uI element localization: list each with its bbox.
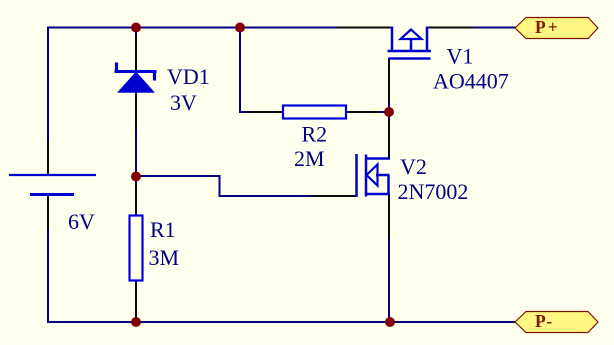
svg-text:6V: 6V xyxy=(68,209,95,234)
resistor R1 body xyxy=(130,216,143,281)
wire V1 gate to node xyxy=(388,102,390,112)
R2 pin left xyxy=(247,111,284,113)
V1 substrate arrow xyxy=(401,30,422,40)
wire V2 source to bottom rail xyxy=(388,238,390,322)
junction dot bottom R1 xyxy=(131,317,141,327)
R1 pin top xyxy=(135,182,137,216)
wire R2 left stub xyxy=(239,111,248,113)
battery GB plate negative xyxy=(30,193,74,196)
svg-text:P+: P+ xyxy=(535,17,560,37)
svg-text:R1: R1 xyxy=(150,217,176,242)
svg-text:V1: V1 xyxy=(447,44,474,69)
zener VD1 cathode bar xyxy=(115,70,157,73)
V1 pin gate xyxy=(388,58,390,103)
wire bottom rail xyxy=(47,321,515,323)
svg-text:V2: V2 xyxy=(400,154,427,179)
V2 pin gate xyxy=(311,195,356,197)
battery GB plate positive xyxy=(9,174,96,176)
V2 gate plate xyxy=(355,154,358,197)
port P+ xyxy=(515,18,598,39)
wire node to V2 drain xyxy=(388,112,390,120)
wire gate row upper xyxy=(136,175,221,177)
svg-text:P-: P- xyxy=(535,311,553,331)
V2 source stub xyxy=(365,193,390,196)
battery GB pin top xyxy=(47,140,49,174)
svg-text:3V: 3V xyxy=(170,90,197,115)
wire VD1 anode to node xyxy=(135,128,137,177)
battery GB pin bottom xyxy=(47,196,49,230)
V2 substrate arrow xyxy=(367,165,378,186)
op V1 mosfet symbol xyxy=(388,27,432,59)
svg-text:AO4407: AO4407 xyxy=(433,69,509,94)
zener VD1 anode triangle xyxy=(117,72,155,93)
V1 right stub xyxy=(426,27,429,52)
V2 drain stub xyxy=(365,157,390,160)
V2 pin drain xyxy=(388,119,390,158)
V2 substrate stem xyxy=(376,174,390,177)
VD1 pin cathode xyxy=(135,34,137,71)
svg-text:2N7002: 2N7002 xyxy=(398,179,469,204)
zener VD1 left bend xyxy=(115,63,118,73)
wire left column lower xyxy=(47,229,49,323)
V1 channel bar xyxy=(388,50,432,53)
wire gate step down xyxy=(219,175,221,197)
R1 pin bottom xyxy=(135,280,137,317)
wire R1 bottom xyxy=(135,316,137,322)
V2 substrate drop xyxy=(387,175,390,194)
junction dot node R2 gate V1 xyxy=(384,107,394,117)
V2 pin source xyxy=(388,195,390,239)
wire V1 to P+ xyxy=(472,27,516,29)
zener VD1 right bend xyxy=(153,71,156,81)
V1 gate plate xyxy=(389,57,431,60)
junction dot node VD1 R1 gate xyxy=(131,172,141,182)
junction dot bottom V2 xyxy=(385,317,395,327)
transistor V2 mosfet symbol xyxy=(357,154,391,197)
wire top rail xyxy=(48,27,337,29)
junction dot top R2 branch xyxy=(235,23,245,33)
wire gate row lower xyxy=(220,195,313,197)
wire R1 top xyxy=(135,176,137,183)
R2 pin right xyxy=(346,111,379,113)
V1 left stub xyxy=(391,27,394,52)
svg-text:R2: R2 xyxy=(302,122,328,147)
svg-text:3M: 3M xyxy=(149,245,180,270)
wire R2 branch drop xyxy=(239,28,241,114)
junction dot top VD1 xyxy=(131,23,141,33)
port P- xyxy=(515,312,598,333)
wire left column upper xyxy=(47,27,49,142)
VD1 pin anode xyxy=(135,92,137,129)
svg-text:2M: 2M xyxy=(294,146,325,171)
V2 channel bar xyxy=(365,155,368,197)
wire R2 right stub xyxy=(378,111,390,113)
V1 substrate stem xyxy=(410,38,413,51)
V1 pin source xyxy=(427,27,473,29)
svg-text:VD1: VD1 xyxy=(167,64,210,89)
V1 pin drain xyxy=(337,27,392,29)
wire VD1 top xyxy=(135,27,137,37)
resistor R2 body xyxy=(283,106,346,119)
